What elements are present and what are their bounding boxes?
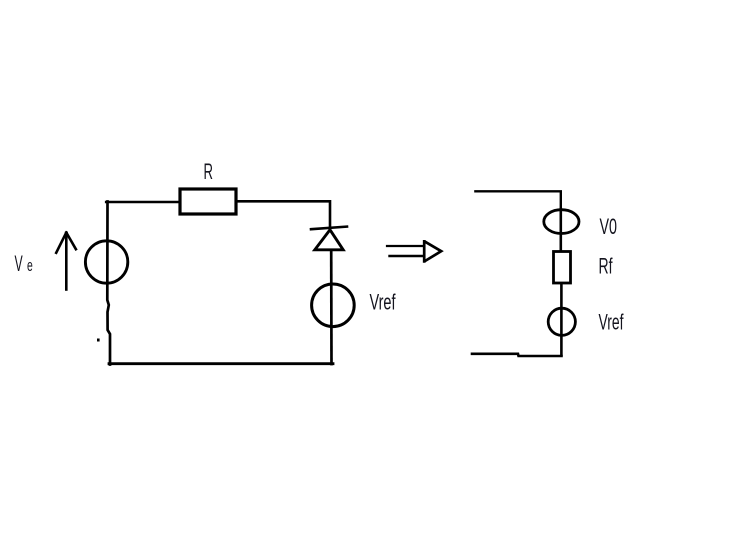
diode D1 cathode bar bbox=[311, 227, 347, 230]
diode D1 triangle bbox=[315, 230, 343, 250]
wire diode to bottom bbox=[330, 251, 333, 365]
implication arrow head bbox=[424, 240, 441, 263]
wire through V0 source bbox=[559, 209, 562, 251]
wire bottom (right circuit) bbox=[472, 354, 562, 356]
wire top left bbox=[106, 201, 180, 204]
current arrow (up) bbox=[56, 233, 76, 290]
svg-text:e: e bbox=[27, 256, 33, 275]
implication arrow shaft top bbox=[387, 245, 424, 247]
svg-text:Rf: Rf bbox=[599, 254, 614, 279]
node dot bbox=[97, 339, 100, 342]
voltage source Ve bbox=[85, 241, 127, 283]
voltage source V0 bbox=[544, 210, 579, 234]
voltage source Vref (left circuit) bbox=[312, 284, 355, 327]
wire top right bbox=[236, 201, 330, 227]
svg-text:Vref: Vref bbox=[370, 290, 397, 315]
voltage source Vref (right circuit) bbox=[548, 308, 575, 335]
wire Rf to bottom bbox=[560, 284, 563, 355]
resistor Rf bbox=[554, 252, 571, 284]
implication arrow shaft bottom bbox=[390, 255, 423, 257]
svg-text:Vref: Vref bbox=[599, 310, 625, 335]
wire left vertical bbox=[107, 202, 110, 365]
label V e bbox=[15, 251, 33, 276]
wire top (right circuit) bbox=[475, 191, 560, 209]
svg-text:R: R bbox=[204, 159, 214, 184]
wire bottom bbox=[109, 362, 333, 365]
svg-text:V: V bbox=[15, 251, 23, 276]
svg-text:V0: V0 bbox=[600, 214, 618, 239]
resistor R bbox=[180, 189, 236, 214]
